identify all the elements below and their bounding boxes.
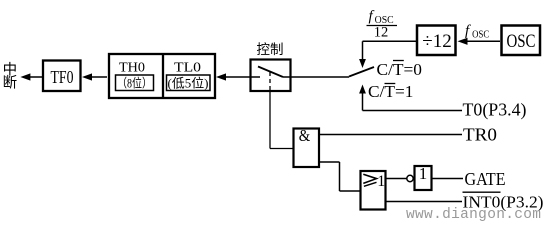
svg-text:www.diangon.com: www.diangon.com — [406, 207, 541, 223]
wire INT0 input — [386, 201, 462, 203]
wire AND output up to control switch — [270, 91, 293, 149]
svg-text:1: 1 — [377, 173, 385, 190]
oscillator OSC — [502, 26, 541, 56]
OR gate U4 ≥1 — [361, 171, 386, 210]
wire TF0 output arrow to 中断 — [20, 73, 42, 80]
wire fosc/12 net with down arrow — [359, 41, 416, 68]
wire TR0 input — [320, 134, 462, 136]
wire OR output to AND input — [320, 162, 360, 191]
svg-text:OSC: OSC — [507, 31, 536, 52]
svg-text:÷12: ÷12 — [422, 31, 451, 52]
svg-text:12: 12 — [374, 24, 389, 40]
wire TH0 to TF0 arrow — [82, 73, 107, 80]
wire 控制 to TL0 arrow — [216, 73, 250, 80]
NOT gate U5 1 — [415, 164, 432, 190]
svg-text:T0(P3.4): T0(P3.4) — [463, 100, 527, 121]
switch arm C/T selector — [349, 67, 374, 77]
svg-text:TL0: TL0 — [174, 61, 201, 76]
label fOSC/12 fraction — [367, 9, 398, 41]
register TF0 — [43, 61, 81, 92]
dashed control line from switch — [269, 72, 271, 91]
AND gate U3 & — [294, 126, 320, 167]
register TH0 label — [116, 61, 154, 91]
svg-text:&: & — [299, 126, 311, 145]
switch inside control box — [250, 67, 291, 78]
svg-text:C/T=1: C/T=1 — [368, 82, 414, 101]
wire T0 input net with up arrow — [359, 85, 462, 111]
wire OSC to ÷12 arrow — [458, 38, 501, 45]
svg-text:TH0: TH0 — [119, 61, 145, 76]
register TL0 label — [167, 61, 211, 91]
label C/T=0 with overline — [377, 60, 423, 79]
label C/T=1 with overline — [368, 82, 414, 101]
svg-text:TF0: TF0 — [51, 67, 74, 87]
register TH0/TL0 outer box — [109, 53, 215, 98]
svg-text:C/T=0: C/T=0 — [377, 60, 423, 79]
wire OR gate to inverter bubble — [386, 178, 407, 180]
svg-text:（8位）: （8位） — [117, 76, 152, 91]
svg-text:TR0: TR0 — [463, 124, 497, 144]
svg-text:GATE: GATE — [465, 169, 506, 189]
svg-text:(低5位): (低5位) — [168, 76, 209, 91]
label INT0(P3.2) with overline — [463, 192, 544, 211]
wire control box to C/T selector switch pole — [291, 76, 349, 78]
control box U-CTRL — [251, 60, 291, 92]
svg-text:控制: 控制 — [257, 42, 284, 57]
divider U2 ÷12 — [417, 26, 456, 56]
wire GATE input — [433, 178, 464, 180]
label 中断 (interrupt) — [3, 61, 18, 91]
inverter bubble — [407, 175, 413, 181]
svg-text:断: 断 — [3, 74, 18, 91]
svg-text:1: 1 — [419, 164, 428, 183]
